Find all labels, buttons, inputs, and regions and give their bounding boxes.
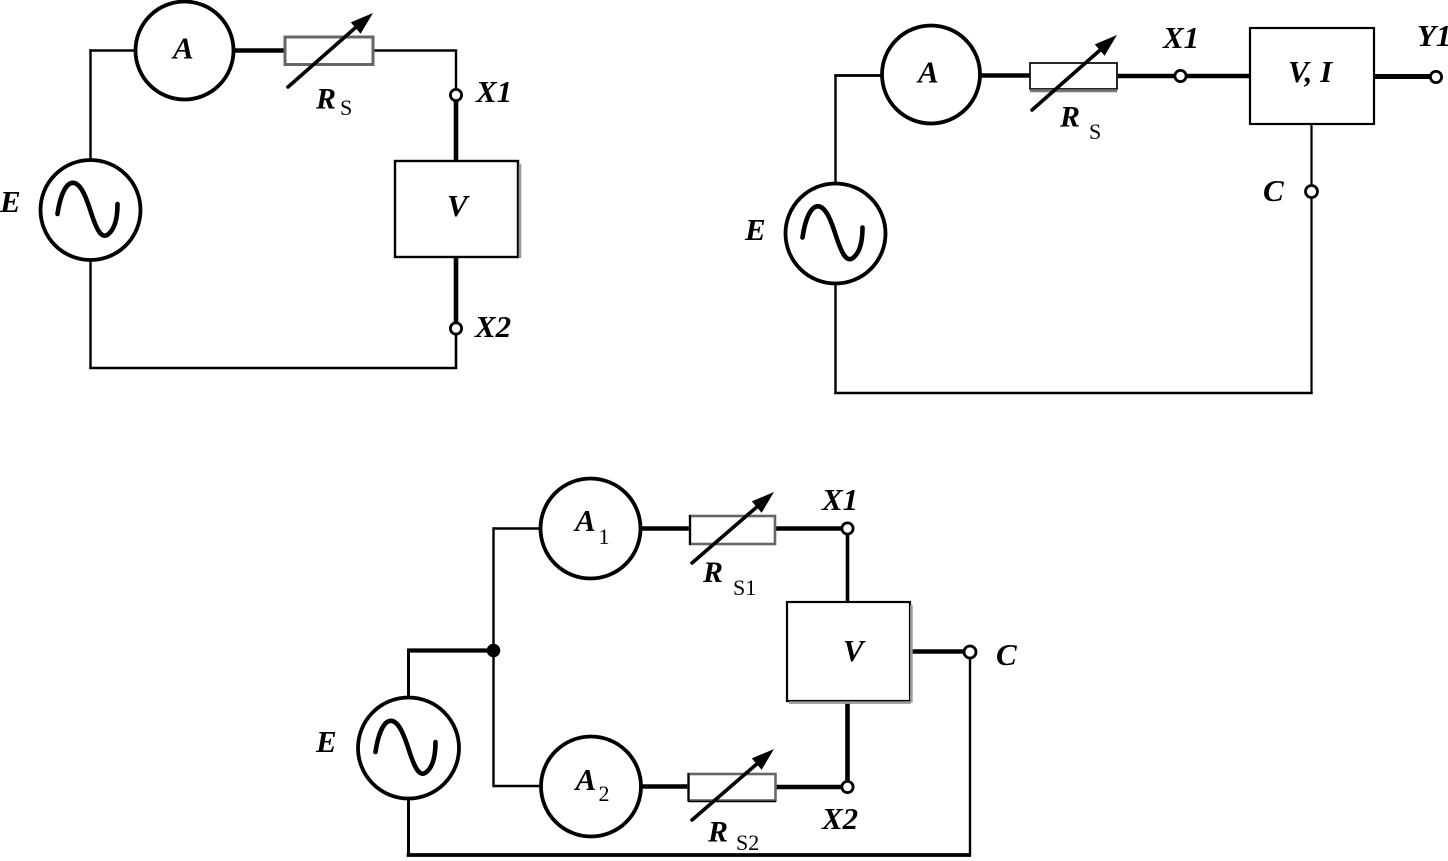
wire C down right vertical bbox=[969, 657, 971, 856]
svg-text:C: C bbox=[1263, 173, 1284, 208]
wire thick RS2 to A2 bbox=[641, 784, 689, 789]
svg-text:R: R bbox=[702, 556, 723, 589]
svg-text:E: E bbox=[744, 212, 766, 247]
svg-text:E: E bbox=[0, 184, 21, 219]
label RS bbox=[315, 83, 352, 121]
ammeter A1 bbox=[541, 479, 641, 579]
svg-text:S2: S2 bbox=[736, 830, 759, 855]
wire X1 down to V bbox=[846, 534, 850, 604]
svg-text:A: A bbox=[171, 31, 194, 66]
wire left vertical upper bbox=[834, 74, 836, 184]
node X1 bbox=[842, 523, 853, 534]
wire top-left horizontal E to A bbox=[89, 49, 137, 51]
label A2 bbox=[574, 762, 610, 806]
wire bottom horizontal bbox=[407, 853, 971, 857]
svg-text:Y1: Y1 bbox=[1417, 18, 1448, 53]
wire thick X2 to RS2 bbox=[776, 785, 843, 790]
measurement box V,I bbox=[1250, 28, 1374, 124]
svg-text:S1: S1 bbox=[733, 575, 756, 600]
AC source E bbox=[786, 184, 886, 284]
resistor RS (variable) bbox=[285, 13, 373, 87]
label A1 bbox=[573, 503, 610, 549]
wire V,I box down to C bbox=[1310, 124, 1312, 186]
node X1 bbox=[1175, 70, 1186, 81]
wire top stub to A1 bbox=[494, 527, 543, 529]
svg-text:C: C bbox=[996, 637, 1017, 672]
svg-text:A: A bbox=[916, 55, 939, 90]
svg-text:X1: X1 bbox=[475, 74, 512, 109]
wire bottom stub to A2 bbox=[494, 785, 543, 787]
svg-text:X2: X2 bbox=[821, 801, 858, 836]
junction node bbox=[487, 644, 501, 658]
ammeter A2 bbox=[541, 737, 641, 837]
label RS bbox=[1059, 101, 1101, 145]
wire thick X1 to voltmeter V bbox=[454, 101, 459, 163]
svg-text:2: 2 bbox=[599, 781, 610, 806]
wire branch vertical bbox=[492, 527, 494, 787]
wire top-left horizontal E to A bbox=[834, 74, 882, 77]
wire thick A to resistor bbox=[979, 73, 1031, 78]
wire left vertical lower bbox=[89, 259, 91, 369]
node C bbox=[1306, 186, 1318, 198]
wire thick A to resistor bbox=[232, 48, 286, 53]
wire thick V,I box to Y1 bbox=[1374, 74, 1431, 79]
ammeter A bbox=[136, 2, 234, 100]
AC source E bbox=[41, 160, 141, 260]
wire thick X1 to V,I box bbox=[1186, 74, 1251, 79]
svg-text:R: R bbox=[1059, 101, 1080, 134]
svg-text:A: A bbox=[573, 503, 596, 538]
voltmeter V bbox=[395, 161, 520, 258]
wire left vertical lower bbox=[834, 283, 836, 394]
wire E top to junction bbox=[409, 649, 490, 699]
node C bbox=[964, 646, 976, 658]
svg-text:E: E bbox=[315, 724, 337, 759]
svg-text:X2: X2 bbox=[474, 309, 511, 344]
wire thick V to X2 bbox=[454, 256, 459, 324]
svg-text:A: A bbox=[574, 762, 597, 797]
ammeter A bbox=[882, 26, 980, 124]
node Y1 bbox=[1430, 71, 1441, 82]
svg-text:R: R bbox=[707, 816, 728, 849]
resistor RS1 (variable) bbox=[690, 492, 775, 563]
node X2 bbox=[842, 781, 853, 792]
svg-text:R: R bbox=[315, 83, 336, 116]
label RS2 bbox=[707, 816, 759, 856]
svg-text:S: S bbox=[340, 95, 352, 120]
resistor RS (variable) bbox=[1030, 35, 1117, 110]
wire resistor to X1 corner bbox=[373, 51, 456, 91]
wire X2 to bottom corner bbox=[455, 333, 458, 369]
svg-text:1: 1 bbox=[599, 524, 610, 549]
voltmeter V bbox=[787, 602, 911, 703]
svg-text:V, I: V, I bbox=[1288, 54, 1333, 89]
wire bottom horizontal bbox=[834, 392, 1312, 394]
AC source E bbox=[358, 698, 459, 799]
wire thick RS1 to X1 bbox=[775, 526, 843, 531]
svg-text:V: V bbox=[843, 633, 866, 668]
wire thick V bottom to X2 bbox=[845, 700, 850, 782]
wire C down to bottom corner bbox=[1310, 198, 1312, 394]
wire bottom horizontal bbox=[89, 367, 457, 369]
resistor RS2 (variable) bbox=[688, 749, 776, 820]
wire thick resistor to X1 bbox=[1117, 74, 1176, 79]
node X2 bbox=[450, 323, 461, 334]
wire thick V right to C bbox=[910, 649, 965, 654]
wire E bottom to loop bottom bbox=[407, 798, 410, 857]
svg-text:X1: X1 bbox=[821, 482, 858, 517]
svg-text:S: S bbox=[1089, 119, 1101, 144]
svg-text:X1: X1 bbox=[1162, 20, 1199, 55]
wire thick A1 to RS1 bbox=[639, 526, 691, 531]
wire left vertical upper bbox=[89, 49, 91, 161]
node X1 bbox=[450, 89, 461, 100]
svg-text:V: V bbox=[447, 188, 470, 223]
label RS1 bbox=[702, 556, 756, 600]
